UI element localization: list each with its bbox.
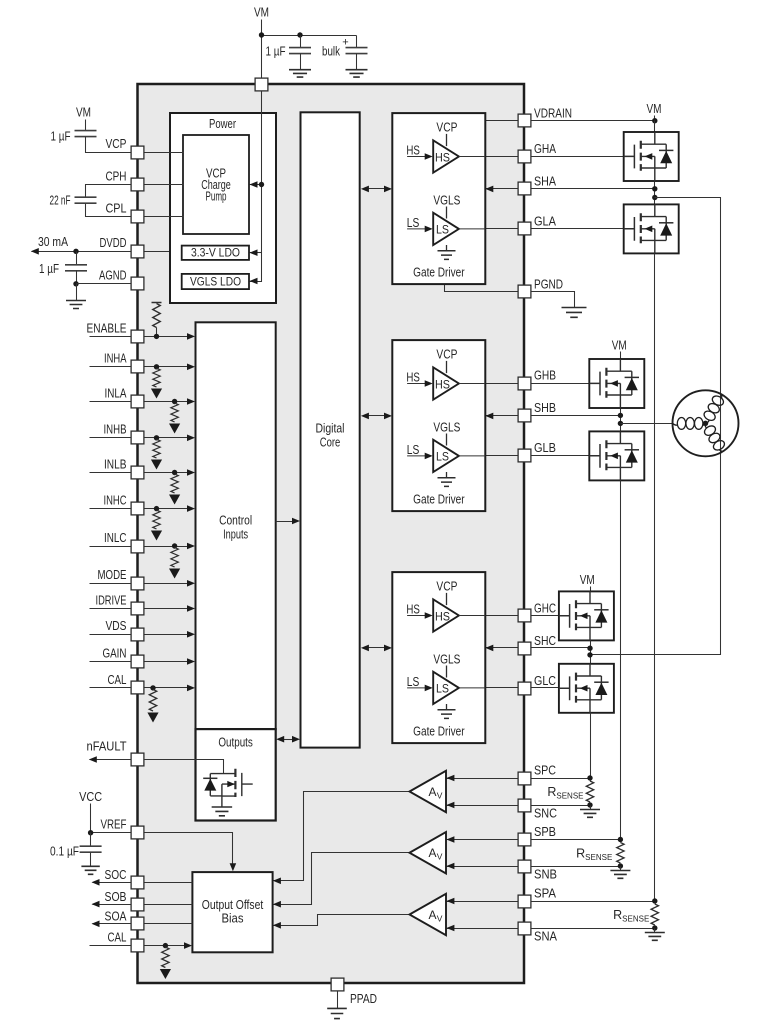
wire GAIN input [90, 661, 189, 663]
svg-text:CAL: CAL [108, 931, 127, 945]
junction ENABLE pullup [154, 334, 159, 339]
svg-text:bulk: bulk [322, 45, 341, 59]
pad ENABLE [131, 330, 144, 343]
svg-text:VM: VM [76, 106, 91, 120]
svg-text:DVDD: DVDD [100, 236, 127, 250]
resistor pull-down INHC [153, 510, 160, 529]
pad SHC [518, 642, 531, 655]
ground AGND [76, 284, 78, 301]
ground sense resistor A [654, 929, 656, 933]
junction SPB sense [618, 837, 623, 842]
digital core block [301, 112, 360, 747]
wire VDRAIN VM down to FET A high [654, 121, 656, 133]
junction SPA sense [652, 898, 657, 903]
wire flying cap to CPL [86, 204, 138, 217]
pad CPL [131, 210, 144, 223]
wire outputs to digital core (bidirectional) [284, 739, 294, 741]
svg-text:GLC: GLC [534, 674, 556, 688]
svg-text:Core: Core [320, 436, 341, 450]
svg-text:30 mA: 30 mA [38, 235, 69, 249]
wire VM to top pad and to caps [261, 20, 263, 85]
wire SNC to amp and sense resistor [447, 805, 591, 807]
wire INLB input [90, 472, 189, 474]
resistor pull-down INLB [171, 474, 178, 493]
pad SNB [518, 860, 531, 873]
svg-text:GLA: GLA [534, 215, 557, 229]
junction cap 1uF top [297, 32, 302, 37]
svg-text:SNB: SNB [534, 868, 557, 882]
wire GHB gate drive [459, 383, 590, 385]
transistor Q1 high-side FET phase A [624, 132, 679, 181]
svg-text:VDS: VDS [106, 619, 127, 633]
wire SOB output [93, 904, 193, 906]
pad PGND [518, 285, 531, 298]
pad GLC [518, 682, 531, 695]
svg-text:GAIN: GAIN [103, 646, 127, 660]
wire VM label stub phase A [654, 116, 656, 121]
pad GLA [518, 222, 531, 235]
svg-text:Control: Control [219, 514, 252, 528]
resistor pull-down INLA [171, 403, 178, 422]
transistor open-drain nFAULT FET [210, 769, 252, 807]
pad GHA [518, 150, 531, 163]
pad SHA [518, 182, 531, 195]
svg-text:RSENSE: RSENSE [547, 785, 583, 801]
op-amp current sense amp A_V phase B [410, 832, 447, 873]
wire digital core to gate driver C (bidirectional) [367, 647, 386, 649]
pad INLA [131, 395, 144, 408]
svg-text:VREF: VREF [101, 818, 127, 832]
pad VM (top) [255, 78, 268, 91]
svg-text:22 nF: 22 nF [50, 194, 71, 208]
pad CPH [131, 178, 144, 191]
svg-text:VM: VM [612, 339, 627, 353]
wire PGND to ground [525, 292, 575, 308]
wire ENABLE input [90, 336, 189, 338]
pad INHA [131, 360, 144, 373]
wire GHC gate drive [459, 615, 559, 617]
wire CAL (bottom) input [90, 945, 186, 947]
svg-text:+: + [342, 37, 348, 49]
svg-text:SNC: SNC [534, 807, 557, 821]
wire amp C output to output offset bias [274, 792, 410, 881]
wire GLC gate drive [459, 687, 559, 689]
inductor motor winding B (left) [673, 418, 706, 430]
junction SPC sense [587, 775, 592, 780]
capacitor bulk (electrolytic) [356, 36, 358, 48]
ground nFAULT FET source [212, 807, 233, 816]
wire FET A high source to SHA node [654, 182, 656, 205]
svg-text:1 µF: 1 µF [51, 130, 71, 144]
wire PGND from gate driver A [445, 285, 518, 292]
pad GHC [518, 609, 531, 622]
wire VCP pad to charge pump [138, 152, 184, 154]
ground below 1 uF cap [289, 70, 311, 77]
junction INHC pulldown [154, 506, 159, 511]
junction CAL bottom pulldown [163, 943, 168, 948]
capacitor 1 uF on DVDD [76, 252, 78, 265]
resistor pull-down INLC [171, 548, 178, 568]
svg-text:RSENSE: RSENSE [613, 908, 649, 924]
svg-text:VM: VM [647, 102, 662, 116]
pad SOB [131, 898, 144, 911]
junction AGND [73, 281, 78, 286]
svg-text:INLB: INLB [104, 457, 127, 471]
svg-text:1 µF: 1 µF [39, 262, 59, 276]
transistor Q3 high-side FET phase B [589, 359, 644, 408]
svg-text:VM: VM [254, 6, 269, 20]
inductor motor winding A (upper right) [700, 392, 726, 426]
pad PPAD (thermal) [331, 978, 344, 991]
pad SPA [518, 895, 531, 908]
svg-text:AGND: AGND [99, 269, 127, 283]
pad GHB [518, 377, 531, 390]
wire VREF to output offset bias [138, 833, 233, 866]
wire VM to FET B high [620, 352, 622, 360]
svg-text:0.1 µF: 0.1 µF [50, 844, 79, 858]
pad SPC [518, 772, 531, 785]
svg-text:CAL: CAL [108, 673, 127, 687]
VGLS LDO block [182, 274, 249, 289]
svg-text:SOC: SOC [105, 868, 127, 882]
pad MODE [131, 577, 144, 590]
pad INHC [131, 502, 144, 515]
pad SNC [518, 799, 531, 812]
junction SHB branch [618, 421, 623, 426]
junction CAL pulldown [150, 685, 155, 690]
svg-text:Outputs: Outputs [218, 735, 253, 749]
capacitor 22 nF flying cap [75, 197, 97, 203]
wire digital core to gate driver A (bidirectional) [367, 188, 386, 190]
pad CAL [131, 681, 144, 694]
pad DVDD [131, 245, 144, 258]
pad GAIN [131, 655, 144, 668]
svg-text:VGLS LDO: VGLS LDO [190, 277, 241, 289]
3.3-V LDO block [182, 246, 249, 260]
wire INHC input [90, 508, 189, 510]
svg-text:ENABLE: ENABLE [87, 321, 127, 335]
junction SHA branch [652, 195, 657, 200]
junction VM [259, 32, 264, 37]
ground PPAD [337, 992, 339, 1009]
svg-text:MODE: MODE [98, 568, 127, 582]
op-amp current sense amp A_V phase A [410, 894, 447, 935]
resistor pull-down CAL [149, 689, 156, 711]
pad VDS [131, 628, 144, 641]
junction SHC [587, 646, 592, 651]
pad VCP [131, 146, 144, 159]
svg-text:CPH: CPH [106, 170, 127, 184]
ground below bulk cap [346, 70, 368, 77]
svg-text:VCP: VCP [106, 137, 127, 151]
transistor Q4 low-side FET phase B [589, 431, 644, 480]
power block [170, 113, 276, 303]
svg-text:VM: VM [580, 573, 595, 587]
ground sense resistor B [620, 867, 622, 871]
svg-text:GHC: GHC [534, 602, 556, 616]
pad INLB [131, 466, 144, 479]
svg-text:SPB: SPB [534, 825, 556, 839]
wire CAL input [90, 687, 189, 689]
junction INLA pulldown [172, 399, 177, 404]
pad AGND [131, 277, 144, 290]
svg-text:1 µF: 1 µF [266, 45, 286, 59]
junction SNC sense [587, 802, 592, 807]
capacitor 0.1 uF on VREF [90, 833, 92, 846]
wire VDS input [90, 634, 189, 636]
capacitor 1 uF (VM bypass) [300, 36, 302, 48]
wire CPH to flying cap [86, 185, 138, 197]
pad SOA [131, 917, 144, 930]
wire CPH pad to charge pump [138, 184, 184, 186]
wire digital core to gate driver B (bidirectional) [367, 415, 386, 417]
gate driver A block [392, 113, 493, 284]
wire FET A low source to sense resistor A [654, 254, 656, 902]
svg-text:GHA: GHA [534, 142, 557, 156]
junction DVDD cap [73, 249, 78, 254]
wire INLC input [90, 546, 189, 548]
wire VCC to VREF [91, 804, 138, 833]
chip body DRV device outline [138, 84, 525, 983]
junction VM phase A [652, 118, 657, 123]
junction SHC branch [587, 652, 592, 657]
control inputs block [196, 322, 276, 729]
svg-text:Power: Power [209, 117, 236, 131]
ground sense resistor C [590, 806, 592, 810]
wire SPC to amp and sense resistor [447, 778, 591, 780]
ground VREF cap [81, 866, 99, 874]
gate driver C block [392, 572, 493, 743]
wire SNB to amp and sense resistor [447, 866, 621, 868]
wire amp A output to output offset bias [274, 915, 410, 926]
pad SPB [518, 833, 531, 846]
svg-text:SOB: SOB [105, 890, 127, 904]
pad GLB [518, 449, 531, 462]
resistor pull-down CAL bottom [162, 947, 169, 967]
junction INHA pulldown [154, 364, 159, 369]
svg-text:INLC: INLC [104, 531, 127, 545]
pad VREF [131, 826, 144, 839]
svg-text:Inputs: Inputs [223, 528, 248, 542]
wire DVDD output 30 mA [32, 251, 182, 253]
pad SHB [518, 409, 531, 422]
svg-text:IDRIVE: IDRIVE [96, 593, 127, 607]
svg-text:VDRAIN: VDRAIN [534, 106, 572, 120]
wire CPL pad to charge pump [138, 216, 184, 218]
svg-text:GHB: GHB [534, 369, 556, 383]
wire nFAULT to open-drain FET [138, 760, 224, 774]
wire SPB to amp and sense resistor [447, 839, 621, 841]
wire IDRIVE input [90, 608, 189, 610]
transistor Q2 low-side FET phase A [624, 204, 679, 253]
svg-text:RSENSE: RSENSE [576, 847, 612, 863]
wire SHC feedback [486, 647, 591, 649]
wire SHB to motor winding B [621, 423, 673, 425]
wire VM internal rail to power blocks [250, 92, 262, 282]
wire control inputs to digital core [276, 521, 294, 523]
resistor R_SENSE phase B [617, 843, 624, 864]
pad SNA [518, 922, 531, 935]
ground PGND [562, 308, 587, 318]
capacitor 1 uF on VCP [85, 120, 87, 131]
svg-text:Bias: Bias [222, 912, 244, 926]
wire FET B high source to SHB node [620, 409, 622, 432]
wire GLA gate drive [459, 228, 624, 230]
svg-text:GLB: GLB [534, 441, 556, 455]
wire SNA to amp and sense resistor [447, 928, 655, 930]
svg-text:INLA: INLA [105, 386, 128, 400]
wire SHA to motor winding A [591, 198, 721, 655]
pad INLC [131, 540, 144, 553]
svg-text:VCC: VCC [79, 790, 102, 804]
resistor pull-up on ENABLE [152, 302, 162, 304]
svg-text:SHB: SHB [534, 401, 556, 415]
svg-text:PGND: PGND [534, 277, 563, 291]
resistor pull-down INHB [153, 439, 160, 458]
svg-text:Pump: Pump [206, 190, 227, 204]
resistor R_SENSE phase C [586, 781, 593, 802]
svg-text:nFAULT: nFAULT [87, 740, 127, 754]
gate driver B block [392, 340, 493, 511]
svg-text:SOA: SOA [105, 910, 128, 924]
pad CAL bottom [131, 939, 144, 952]
svg-text:3.3-V LDO: 3.3-V LDO [191, 248, 240, 260]
pad VDRAIN [518, 114, 531, 127]
wire SOA output [93, 923, 193, 925]
svg-text:INHB: INHB [104, 423, 127, 437]
junction INLB pulldown [172, 470, 177, 475]
svg-text:INHC: INHC [104, 494, 127, 508]
junction VREF cap [88, 830, 93, 835]
junction INLC pulldown [172, 543, 177, 548]
wire SPA to amp and sense resistor [447, 901, 655, 903]
svg-text:SPC: SPC [534, 764, 556, 778]
wire AGND [77, 283, 138, 285]
wire VDRAIN to VM node [486, 120, 655, 122]
svg-text:CPL: CPL [106, 201, 127, 215]
junction VM rail charge pump [259, 182, 264, 187]
junction SNA sense [652, 925, 657, 930]
junction INHB pulldown [154, 435, 159, 440]
pad IDRIVE [131, 602, 144, 615]
wire FET B low source to sense resistor B [620, 481, 622, 840]
resistor R_SENSE phase A [651, 904, 658, 925]
wire FET C high source to SHC node [590, 641, 592, 664]
junction SNB sense [618, 863, 623, 868]
output offset bias block [192, 872, 272, 952]
wire INLA input [90, 401, 189, 403]
wire SHA feedback [486, 188, 655, 190]
junction SHA [652, 186, 657, 191]
inductor motor winding C (lower right) [700, 420, 727, 454]
outputs block [196, 729, 276, 820]
wire VM to FET C high [590, 587, 592, 592]
pad nFAULT [131, 753, 144, 766]
junction SHB [618, 413, 623, 418]
wire GHA gate drive [459, 156, 624, 158]
wire SHB feedback [486, 415, 621, 417]
svg-text:SHC: SHC [534, 634, 556, 648]
resistor pull-down INHA [153, 368, 160, 387]
pad INHB [131, 431, 144, 444]
wire amp B output to output offset bias [274, 853, 410, 905]
svg-text:INHA: INHA [104, 352, 127, 366]
svg-text:SPA: SPA [534, 887, 557, 901]
svg-text:Digital: Digital [316, 422, 345, 436]
svg-text:SNA: SNA [534, 930, 558, 944]
svg-text:PPAD: PPAD [350, 992, 377, 1006]
svg-text:Output Offset: Output Offset [202, 898, 264, 912]
transistor Q5 high-side FET phase C [559, 591, 614, 640]
wire nFAULT output [90, 759, 138, 761]
op-amp current sense amp A_V phase C [410, 771, 447, 812]
wire INHA input [90, 366, 189, 368]
transistor Q6 low-side FET phase C [559, 664, 614, 713]
wire FET C low source to sense resistor C [590, 713, 592, 779]
wire SOC output [93, 882, 193, 884]
junction motor center [703, 421, 708, 426]
motor BLDC three-phase [673, 390, 739, 456]
pad SOC [131, 876, 144, 889]
wire INHB input [90, 437, 189, 439]
wire MODE input [90, 583, 189, 585]
wire GLB gate drive [459, 455, 590, 457]
svg-text:SHA: SHA [534, 175, 557, 189]
VCP charge pump block [183, 135, 249, 234]
